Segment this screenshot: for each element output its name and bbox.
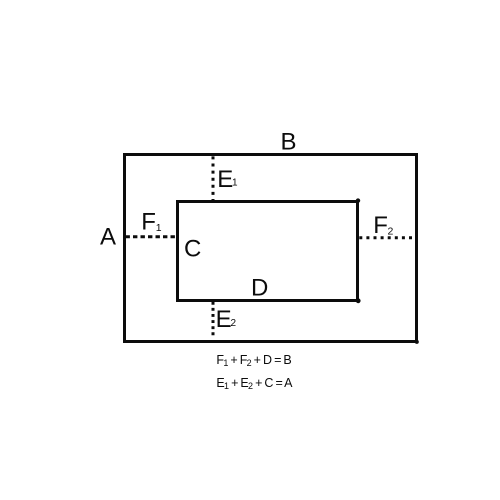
svg-text:D: D — [251, 275, 268, 302]
corner blob inner top-right — [356, 198, 360, 202]
svg-text:B: B — [281, 129, 297, 156]
svg-text:F1 + F2 + D = B: F1 + F2 + D = B — [216, 353, 291, 368]
dotted line E1 — [212, 156, 215, 200]
corner blob outer bottom-right — [415, 340, 419, 344]
corner blob inner bottom-right — [356, 298, 361, 303]
svg-text:E1 + E2 + C = A: E1 + E2 + C = A — [216, 376, 293, 391]
svg-text:C: C — [184, 236, 201, 263]
svg-text:E1: E1 — [217, 166, 238, 193]
svg-text:F2: F2 — [373, 212, 393, 239]
dotted line E2 — [212, 302, 215, 336]
svg-text:E2: E2 — [216, 306, 237, 333]
dotted line F1 — [126, 235, 177, 238]
inner rectangle D — [178, 202, 358, 301]
dotted line F2 — [359, 236, 412, 239]
svg-text:A: A — [100, 223, 116, 250]
outer rectangle B — [125, 155, 417, 342]
svg-text:F1: F1 — [141, 208, 162, 235]
